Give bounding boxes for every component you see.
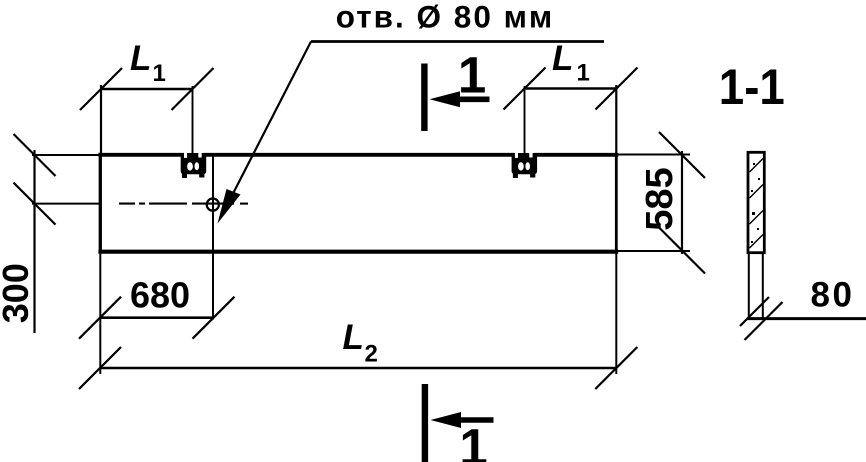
svg-text:1-1: 1-1: [719, 59, 785, 115]
svg-text:1: 1: [458, 46, 486, 103]
svg-text:2: 2: [365, 340, 378, 367]
svg-text:отв. Ø 80 мм: отв. Ø 80 мм: [336, 0, 554, 35]
svg-text:1: 1: [577, 60, 590, 87]
svg-text:585: 585: [639, 167, 681, 230]
svg-text:1: 1: [153, 60, 166, 87]
svg-text:680: 680: [130, 274, 190, 315]
svg-text:L: L: [130, 39, 151, 78]
svg-text:1: 1: [459, 419, 487, 462]
svg-text:L: L: [343, 318, 364, 357]
svg-text:300: 300: [0, 263, 36, 323]
svg-text:80: 80: [811, 276, 855, 315]
svg-text:L: L: [552, 39, 573, 78]
